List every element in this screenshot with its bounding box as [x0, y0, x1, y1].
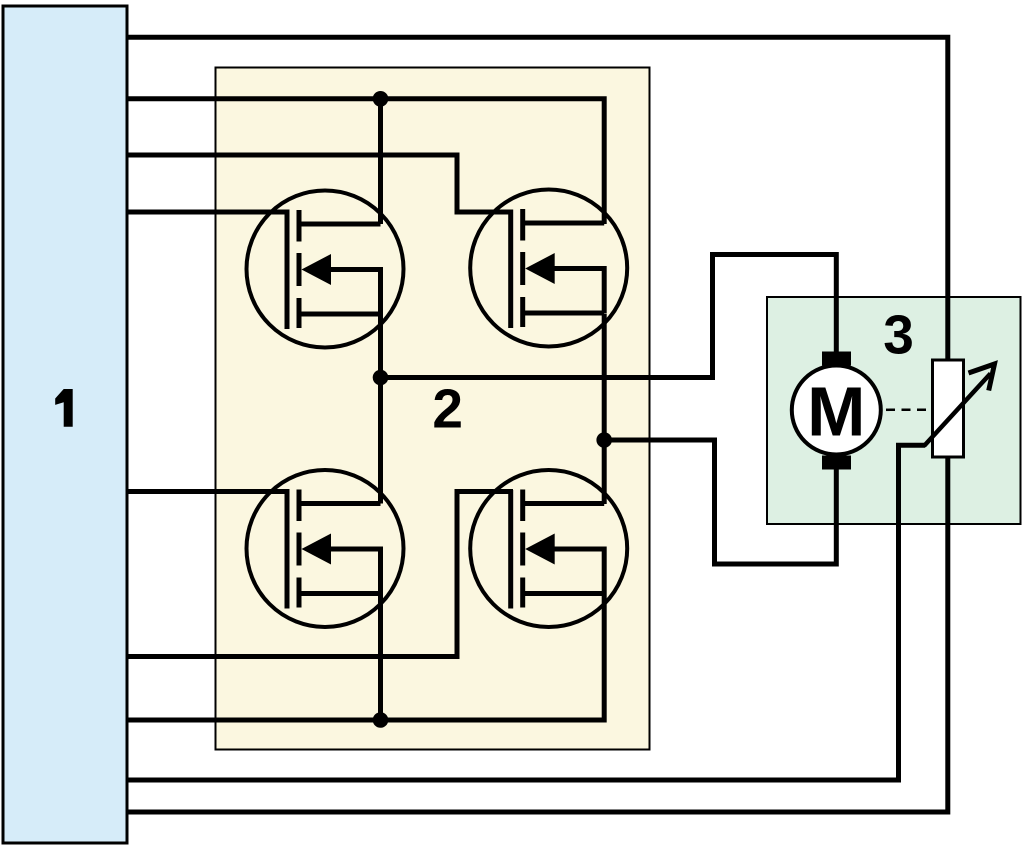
- svg-text:2: 2: [432, 377, 463, 439]
- svg-text:3: 3: [883, 304, 914, 366]
- svg-text:M: M: [807, 373, 865, 451]
